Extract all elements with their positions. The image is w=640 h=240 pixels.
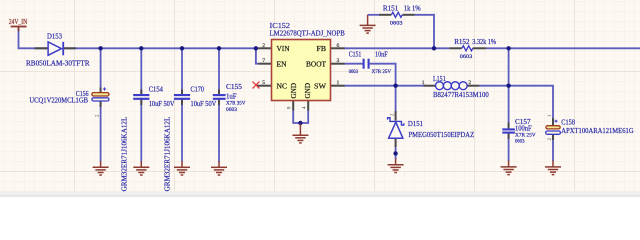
op-amp U1: IC152 LM22678 body (272, 40, 331, 101)
node SW node junction (393, 84, 397, 88)
svg-text:1: 1 (422, 80, 425, 86)
svg-text:X7R 25V: X7R 25V (372, 69, 391, 75)
wire L151 to C158 corner (479, 86, 553, 118)
resistor R151 (391, 12, 402, 17)
pin R151 right stub (403, 14, 415, 16)
wire D151 top (395, 86, 397, 112)
wire C154 branch top (140, 48, 142, 94)
svg-text:NC: NC (277, 82, 288, 90)
pin L151 stub 2 (467, 85, 479, 87)
wire BOOT to C151 (345, 63, 363, 65)
svg-text:0603: 0603 (226, 107, 237, 113)
pin IC152 EN pin 7 (259, 63, 272, 65)
pin D151 cathode stub (395, 111, 397, 121)
svg-text:1uF: 1uF (226, 92, 237, 100)
pin C158 stubs (552, 118, 554, 140)
svg-text:C155: C155 (226, 83, 242, 91)
wire EN branch (256, 48, 259, 63)
svg-text:10uF 50V: 10uF 50V (191, 100, 218, 108)
svg-text:GRM32ER71J106KA12L: GRM32ER71J106KA12L (164, 117, 172, 192)
svg-text:D151: D151 (408, 120, 423, 128)
pin R151 left stub (379, 14, 391, 16)
wire C154 branch bottom (140, 100, 142, 162)
svg-text:3.32k 1%: 3.32k 1% (472, 38, 496, 46)
pin C156 stubs (100, 88, 102, 108)
svg-text:SW: SW (314, 82, 326, 90)
ground (C170) (174, 161, 190, 175)
pin C155 stubs (218, 90, 220, 106)
svg-text:VIN: VIN (277, 45, 291, 53)
diode D151 (schottky) (388, 118, 404, 139)
wire C156 branch top (100, 48, 102, 92)
svg-text:7: 7 (262, 58, 265, 64)
resistor R152 (462, 46, 473, 51)
pin C170 stubs (181, 90, 183, 106)
svg-text:3: 3 (337, 58, 340, 64)
svg-text:10nF: 10nF (375, 50, 388, 58)
svg-text:5: 5 (262, 80, 265, 86)
pin D153 anode stub (35, 47, 48, 49)
svg-text:0603: 0603 (349, 69, 358, 75)
svg-text:R152: R152 (454, 38, 470, 46)
svg-text:C170: C170 (191, 86, 205, 94)
svg-text:0603: 0603 (460, 54, 473, 60)
node output top junction (506, 46, 510, 50)
svg-text:0603: 0603 (515, 139, 525, 145)
svg-text:GRM32ER71J106KA12L: GRM32ER71J106KA12L (121, 117, 129, 192)
node C154 tap junction (139, 46, 143, 50)
ground (R151) (360, 15, 376, 33)
wire C155 branch top (218, 48, 220, 94)
pin R152 right stub (473, 47, 487, 49)
svg-text:0603: 0603 (390, 21, 403, 27)
pin IC152 GND pin 4 (307, 101, 309, 111)
wire C158 bottom (552, 135, 554, 162)
svg-text:6: 6 (337, 43, 340, 49)
ground (C154) (133, 161, 149, 175)
diode D153 (48, 42, 63, 55)
svg-text:R151: R151 (383, 5, 399, 13)
wire C170 branch top (181, 48, 183, 94)
pin IC152 FB pin 6 (331, 47, 345, 49)
wire output column (to C157) (508, 48, 510, 128)
svg-text:100nF: 100nF (515, 125, 532, 133)
wire R151 left to ground corner (368, 14, 379, 16)
pin R152 left stub (449, 47, 462, 49)
inductor L151 (436, 82, 468, 90)
svg-text:2: 2 (468, 80, 471, 86)
svg-text:1: 1 (337, 80, 340, 86)
capacitor C155 (213, 95, 226, 99)
wire SW to L151 (345, 85, 425, 87)
node output mid junction (506, 84, 510, 88)
svg-text:BOOT: BOOT (306, 60, 327, 68)
ground (C155) (211, 161, 227, 175)
svg-text:L151: L151 (433, 75, 446, 83)
capacitor C158 (polarized) (546, 120, 561, 135)
pin D151 anode stub (395, 138, 397, 147)
pin C154 stubs (140, 90, 142, 106)
svg-text:X7R 25V: X7R 25V (515, 132, 536, 138)
pin IC152 VIN pin 2 (259, 47, 272, 49)
wire C157 bottom (508, 133, 510, 161)
power port 24V_IN (11, 27, 27, 32)
svg-text:RB050LAM-30TFTR: RB050LAM-30TFTR (26, 58, 90, 67)
wire 24V_IN drop (19, 29, 48, 48)
svg-text:APXT100ARA121ME61G: APXT100ARA121ME61G (561, 126, 634, 135)
node D151 anode junction (393, 151, 397, 155)
svg-text:B82477R4153M100: B82477R4153M100 (433, 90, 489, 99)
wire C155 branch bottom (218, 100, 220, 162)
wire VIN rail (diode cathode to VIN pin) (63, 47, 259, 49)
svg-text:24V_IN: 24V_IN (9, 18, 28, 26)
pin IC152 SW pin 1 (331, 85, 345, 87)
ground (IC152 GND) (292, 124, 308, 143)
svg-text:D153: D153 (47, 33, 62, 41)
svg-text:GND: GND (290, 83, 298, 99)
capacitor C156 (polarized) (92, 87, 109, 101)
node FB node junction (432, 46, 436, 50)
wire R152 right to output junction and right edge (486, 47, 640, 49)
svg-text:10uF 50V: 10uF 50V (149, 100, 176, 108)
pin IC152 NC pin 5 (257, 85, 272, 87)
capacitor C170 (174, 95, 190, 99)
node IC gnd junction (298, 121, 302, 125)
pin IC152 GND pin 8 (292, 101, 294, 111)
node C155 tap junction (217, 46, 221, 50)
ground (D151) (388, 159, 404, 173)
ground (C157) (501, 161, 517, 175)
node EN tap junction (254, 46, 258, 50)
pin L151 stub 1 (424, 85, 436, 87)
capacitor C157 (502, 129, 515, 132)
node C170 tap junction (180, 46, 184, 50)
pin IC152 BOOT pin 3 (331, 63, 345, 65)
wire R151 branch vertical (415, 15, 434, 49)
svg-text:X7R 35V: X7R 35V (226, 101, 245, 107)
svg-text:1k 1%: 1k 1% (404, 5, 421, 13)
capacitor C151 (364, 59, 369, 69)
pin D153 cathode stub (63, 47, 76, 49)
wire FB to R151/R152 junction (345, 47, 450, 49)
wire C156 branch bottom (100, 101, 102, 162)
wire D151 anode to ground (395, 146, 397, 159)
no-connect X on NC pin 5 (253, 82, 260, 89)
svg-text:C151: C151 (349, 50, 362, 58)
node C156 tap junction (98, 46, 102, 50)
svg-text:GND: GND (304, 83, 312, 99)
wire C151 to SW node (370, 64, 396, 86)
svg-text:PMEG050T150EIPDAZ: PMEG050T150EIPDAZ (409, 130, 475, 139)
pin C157 stubs (508, 123, 510, 140)
svg-text:EN: EN (277, 60, 288, 68)
svg-text:2: 2 (262, 43, 265, 49)
ground (C156) (93, 161, 109, 175)
svg-text:FB: FB (317, 45, 327, 53)
wire C170 branch bottom (181, 100, 183, 162)
svg-text:LM22678QTJ-ADJ_NOPB: LM22678QTJ-ADJ_NOPB (270, 28, 345, 37)
svg-text:UCQ1V220MCL1GB: UCQ1V220MCL1GB (29, 96, 88, 104)
capacitor C154 (133, 95, 149, 99)
svg-text:C154: C154 (149, 86, 164, 94)
ground (C158) (545, 161, 561, 175)
wire IC GND pins to ground (293, 110, 308, 123)
